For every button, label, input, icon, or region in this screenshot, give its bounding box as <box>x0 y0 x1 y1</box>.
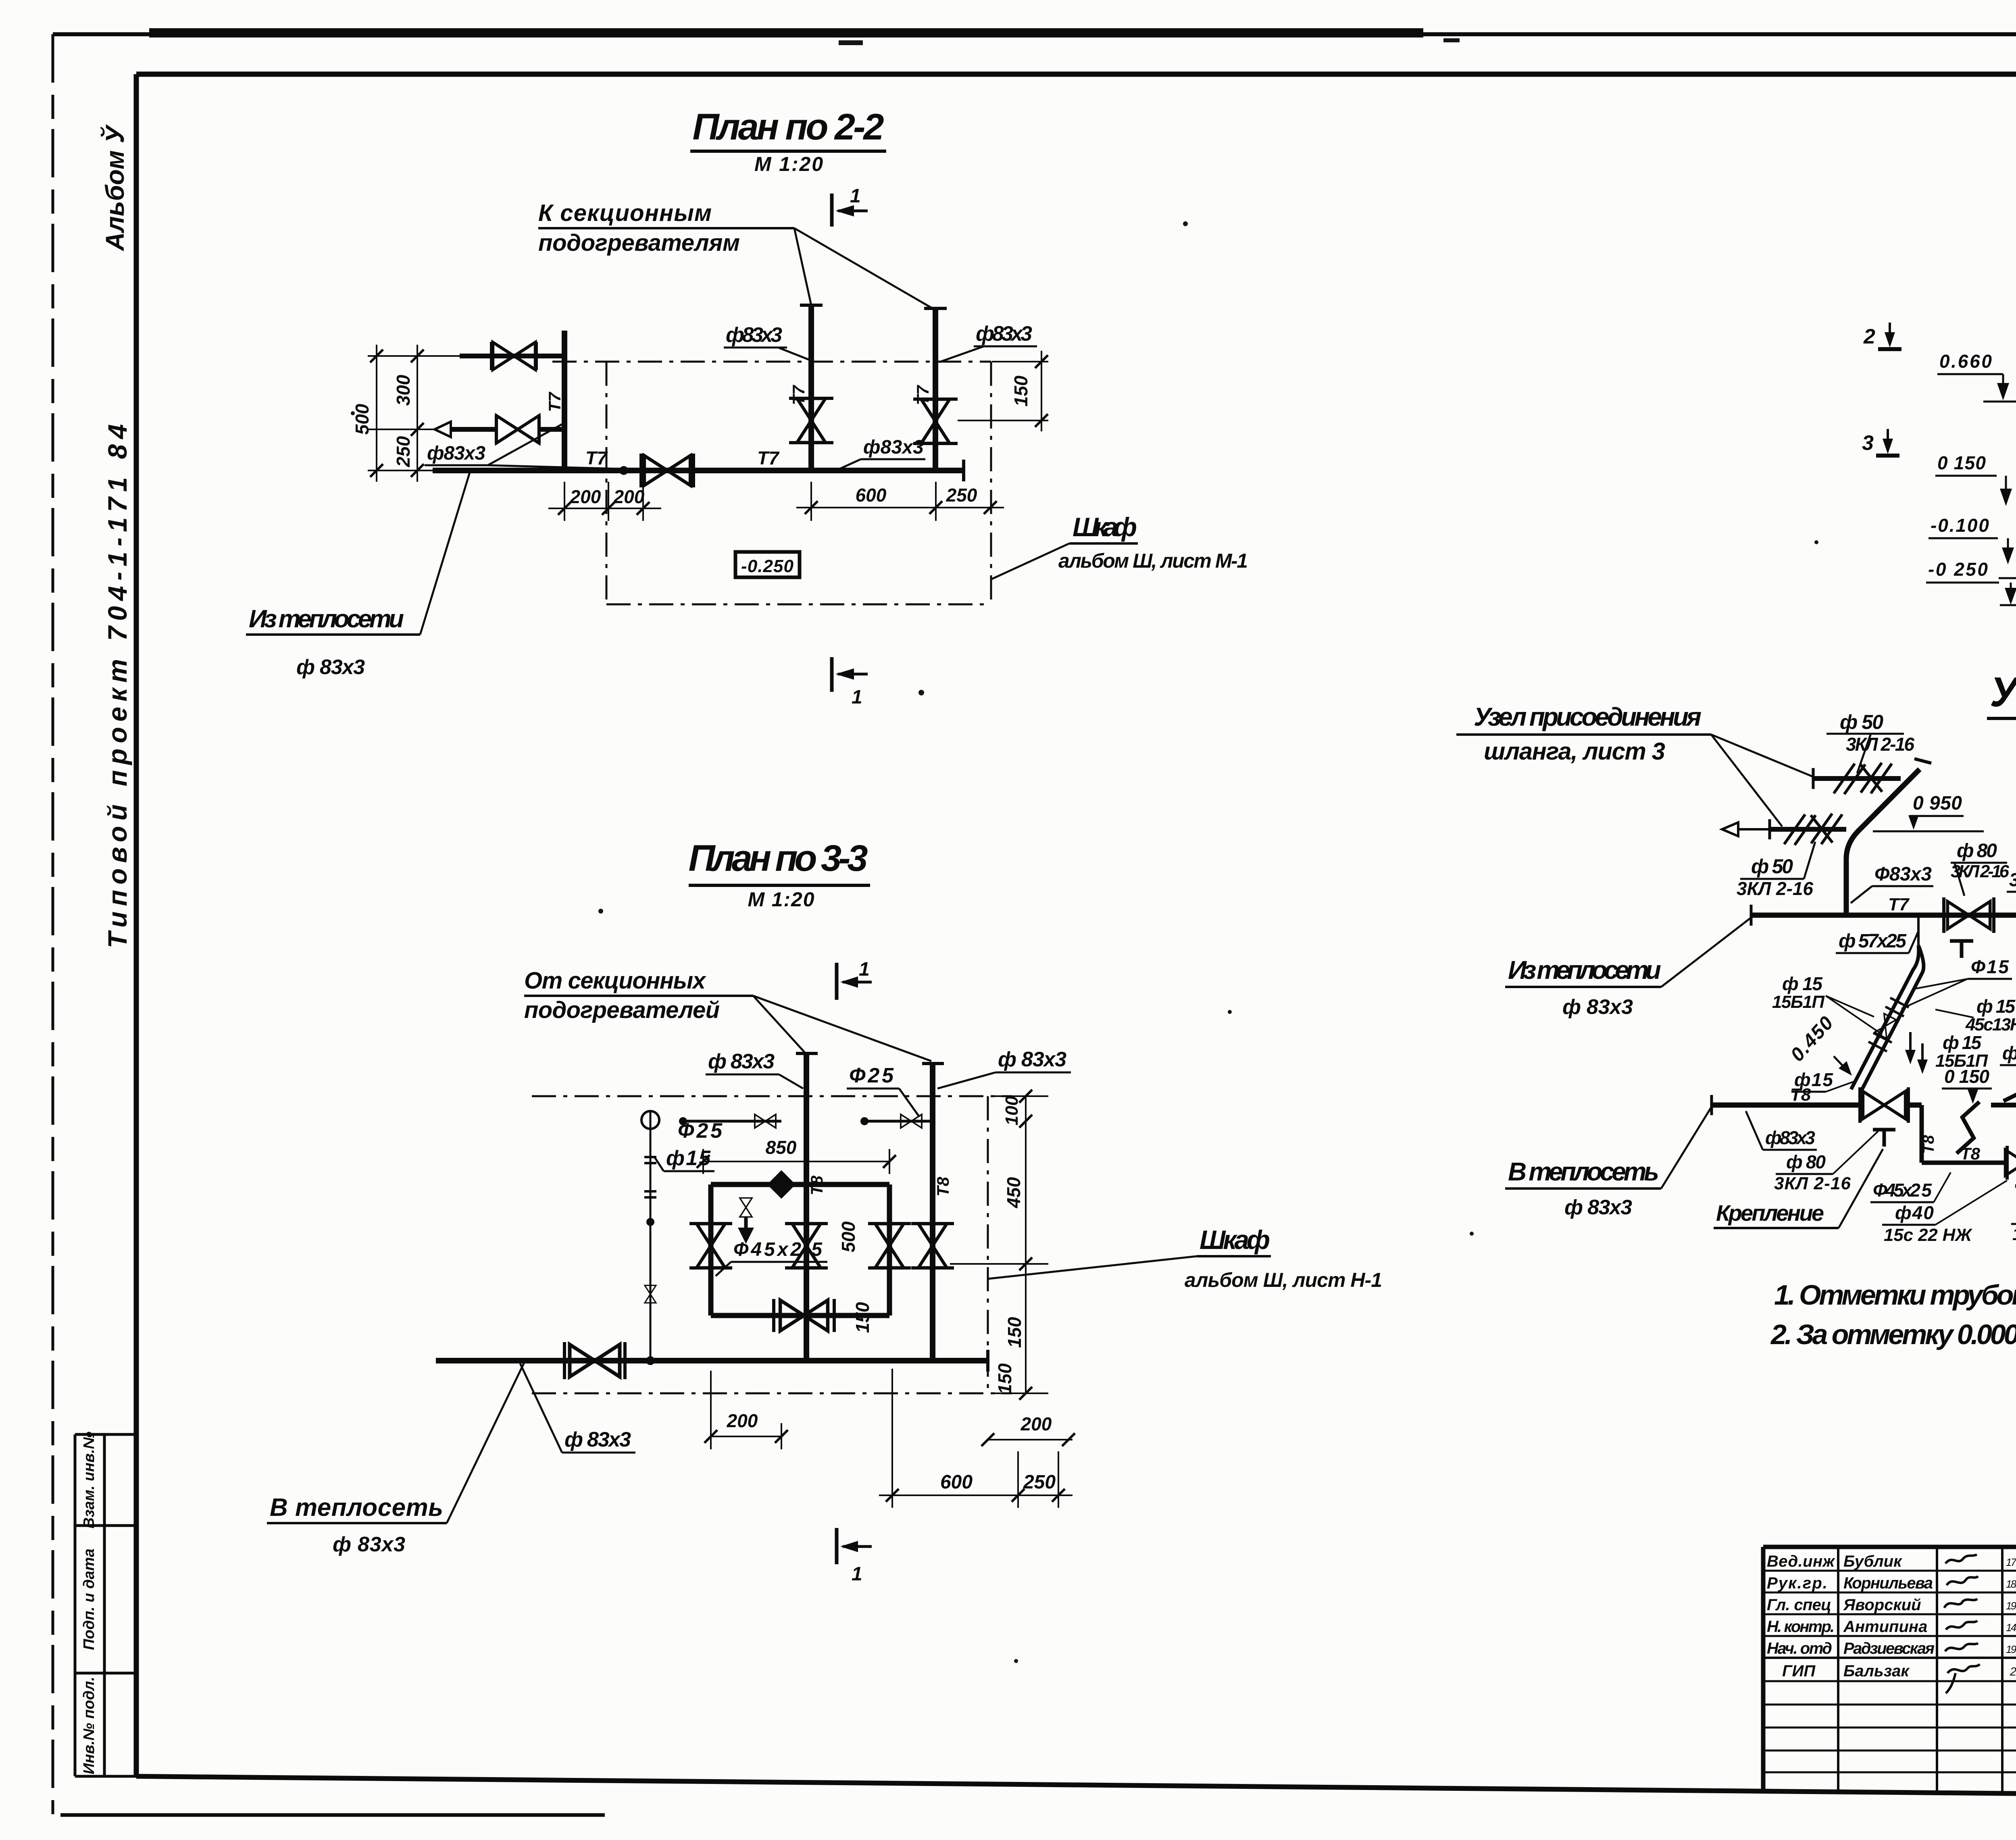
svg-text:Т8: Т8 <box>933 1176 952 1197</box>
svg-text:ф 83х3: ф 83х3 <box>333 1533 405 1556</box>
svg-text:Бублик: Бублик <box>1843 1553 1902 1570</box>
svg-text:14.06.81: 14.06.81 <box>2006 1621 2016 1634</box>
svg-text:15Б1П: 15Б1П <box>2012 1224 2016 1244</box>
svg-text:0.660: 0.660 <box>1939 351 1992 372</box>
svg-text:0 150: 0 150 <box>1937 452 1986 473</box>
svg-text:3КЛ 2-16: 3КЛ 2-16 <box>1774 1174 1851 1193</box>
svg-text:В теплосеть: В теплосеть <box>1508 1157 1659 1186</box>
svg-text:Бальзак: Бальзак <box>1843 1662 1910 1680</box>
svg-text:От секционных: От секционных <box>524 968 707 994</box>
svg-text:подогревателей: подогревателей <box>524 997 720 1023</box>
svg-text:0 150: 0 150 <box>1944 1066 1989 1087</box>
svg-text:1: 1 <box>852 687 862 708</box>
svg-text:250: 250 <box>946 485 977 506</box>
svg-text:200: 200 <box>1020 1413 1052 1434</box>
svg-text:1: 1 <box>859 959 870 980</box>
svg-text:Ф25: Ф25 <box>678 1119 723 1143</box>
svg-text:1. Отметки трубопроводов в шка: 1. Отметки трубопроводов в шкафу даны по… <box>1774 1279 2016 1311</box>
svg-text:Ф15: Ф15 <box>1971 956 2009 977</box>
svg-text:300: 300 <box>393 375 414 406</box>
svg-text:19.06.81: 19.06.81 <box>2006 1643 2016 1655</box>
svg-text:Ф25: Ф25 <box>849 1064 894 1087</box>
svg-text:Радзиевская: Радзиевская <box>1843 1640 1935 1657</box>
svg-text:3: 3 <box>1862 431 1874 455</box>
svg-text:М 1:20: М 1:20 <box>754 153 823 175</box>
svg-text:18.06.81: 18.06.81 <box>2006 1578 2016 1590</box>
svg-text:альбом Ш, лист Н-1: альбом Ш, лист Н-1 <box>1185 1269 1382 1291</box>
svg-text:шланга, лист 3: шланга, лист 3 <box>1484 738 1665 765</box>
svg-text:Из теплосети: Из теплосети <box>1508 955 1661 985</box>
svg-text:ф 15: ф 15 <box>1943 1032 1982 1053</box>
svg-text:ф 83х3: ф 83х3 <box>564 1428 631 1451</box>
svg-text:ф83х3: ф83х3 <box>863 437 924 458</box>
svg-text:3КЛ 2-16: 3КЛ 2-16 <box>1846 734 1914 755</box>
svg-text:Гл. спец: Гл. спец <box>1767 1596 1831 1614</box>
svg-text:850: 850 <box>766 1137 797 1158</box>
svg-text:200: 200 <box>727 1410 758 1431</box>
svg-text:250: 250 <box>393 436 414 467</box>
svg-text:26.06: 26.06 <box>2010 1665 2016 1678</box>
svg-text:ф 57х25: ф 57х25 <box>1839 930 1907 952</box>
svg-text:100: 100 <box>1002 1096 1022 1126</box>
svg-text:Из теплосети: Из теплосети <box>249 605 404 633</box>
svg-text:600: 600 <box>856 485 887 506</box>
svg-text:15с 22 НЖ: 15с 22 НЖ <box>1884 1225 1972 1245</box>
svg-text:15Б1П: 15Б1П <box>1772 992 1825 1012</box>
svg-text:Подп. и дата: Подп. и дата <box>81 1549 98 1650</box>
svg-text:Т8: Т8 <box>1920 1135 1937 1154</box>
svg-text:0.450: 0.450 <box>1787 1012 1838 1066</box>
svg-text:ф 83х3: ф 83х3 <box>1564 1196 1632 1219</box>
svg-text:200: 200 <box>613 486 645 507</box>
svg-text:ф40: ф40 <box>1895 1202 1934 1223</box>
svg-text:Нач. отд: Нач. отд <box>1767 1640 1832 1657</box>
svg-text:В теплосеть: В теплосеть <box>270 1494 443 1522</box>
svg-text:Альбом Ў: Альбом Ў <box>100 124 129 252</box>
svg-text:Т7: Т7 <box>757 448 780 468</box>
svg-text:План по 3-3: План по 3-3 <box>689 838 868 879</box>
svg-text:Вед.инж: Вед.инж <box>1767 1553 1836 1570</box>
svg-text:3КЛ 2-16: 3КЛ 2-16 <box>1737 878 1813 899</box>
svg-text:ф 50: ф 50 <box>1840 711 1883 733</box>
svg-text:ф 50: ф 50 <box>1751 855 1793 878</box>
svg-text:450: 450 <box>1003 1177 1024 1208</box>
svg-text:Т7: Т7 <box>1888 895 1910 914</box>
svg-text:Узел присоединения: Узел присоединения <box>1474 702 1702 731</box>
svg-text:ГИП: ГИП <box>1782 1662 1816 1680</box>
svg-text:Взам. инв.№: Взам. инв.№ <box>81 1432 98 1528</box>
svg-text:ф83х3: ф83х3 <box>1765 1127 1815 1148</box>
svg-text:Типовой проект 704-1-171 84: Типовой проект 704-1-171 84 <box>102 424 132 948</box>
svg-text:ф83х3: ф83х3 <box>976 322 1032 346</box>
svg-text:500: 500 <box>838 1221 859 1252</box>
svg-text:600: 600 <box>940 1472 973 1493</box>
svg-text:К секционным: К секционным <box>538 200 712 226</box>
svg-text:подогревателям: подогревателям <box>538 230 740 256</box>
svg-text:ф 80: ф 80 <box>1786 1151 1826 1172</box>
svg-text:150: 150 <box>994 1363 1015 1394</box>
svg-text:Крепление: Крепление <box>1716 1200 1824 1226</box>
svg-text:150: 150 <box>1004 1317 1025 1348</box>
svg-text:ф 15: ф 15 <box>1782 973 1823 994</box>
svg-text:1: 1 <box>850 185 861 207</box>
svg-text:-0 250: -0 250 <box>1928 559 1988 580</box>
svg-text:200: 200 <box>570 486 601 507</box>
svg-text:Корнильева: Корнильева <box>1843 1574 1933 1592</box>
svg-text:Инв.№ подл.: Инв.№ подл. <box>81 1677 98 1774</box>
svg-text:ф 83х3: ф 83х3 <box>296 656 365 679</box>
svg-text:-0.100: -0.100 <box>1931 515 1989 536</box>
svg-text:Ф45х2 5: Ф45х2 5 <box>1873 1180 1932 1201</box>
svg-text:ф83х3: ф83х3 <box>726 323 782 347</box>
svg-text:Рук.гр.: Рук.гр. <box>1767 1574 1827 1592</box>
svg-text:Т7: Т7 <box>545 391 564 412</box>
svg-text:ф 83х3: ф 83х3 <box>708 1050 775 1073</box>
svg-text:Яворский: Яворский <box>1843 1596 1921 1614</box>
svg-text:ф15: ф15 <box>666 1147 711 1170</box>
svg-text:1: 1 <box>852 1563 862 1585</box>
svg-text:Н. контр.: Н. контр. <box>1767 1618 1835 1636</box>
svg-text:Шкаф: Шкаф <box>1200 1225 1270 1255</box>
svg-text:250: 250 <box>1023 1472 1056 1493</box>
svg-text:Шкаф: Шкаф <box>1073 512 1137 542</box>
svg-text:Т7: Т7 <box>585 448 608 468</box>
svg-text:-0.250: -0.250 <box>741 556 794 576</box>
svg-text:17.06.81: 17.06.81 <box>2006 1556 2016 1568</box>
svg-text:500: 500 <box>352 404 373 435</box>
svg-text:ф 80: ф 80 <box>1957 840 1997 862</box>
svg-text:150: 150 <box>1010 375 1031 406</box>
svg-text:Т8: Т8 <box>1790 1085 1811 1105</box>
svg-text:М 1:20: М 1:20 <box>748 888 814 911</box>
svg-text:ф 15: ф 15 <box>1976 996 2016 1017</box>
svg-text:Антипина: Антипина <box>1843 1618 1927 1636</box>
svg-text:План по 2-2: План по 2-2 <box>693 106 884 148</box>
svg-text:ф 83х3: ф 83х3 <box>998 1048 1066 1071</box>
svg-text:3К4-46-70: 3К4-46-70 <box>2009 869 2016 890</box>
svg-text:Ф83х3: Ф83х3 <box>1874 864 1932 885</box>
svg-text:2: 2 <box>1863 325 1875 348</box>
svg-text:альбом Ш, лист М-1: альбом Ш, лист М-1 <box>1058 550 1248 572</box>
svg-text:0 950: 0 950 <box>1913 793 1962 814</box>
svg-text:ф83х3: ф83х3 <box>427 443 485 464</box>
svg-text:Узел управления: Узел управления <box>1990 669 2016 716</box>
svg-text:ф45х25: ф45х25 <box>2002 1043 2016 1064</box>
svg-text:2. За отметку 0.000 принята от: 2. За отметку 0.000 принята отметка окра… <box>1770 1319 2016 1350</box>
svg-text:19.06.81: 19.06.81 <box>2006 1600 2016 1612</box>
svg-text:ф 83х3: ф 83х3 <box>1562 995 1633 1019</box>
